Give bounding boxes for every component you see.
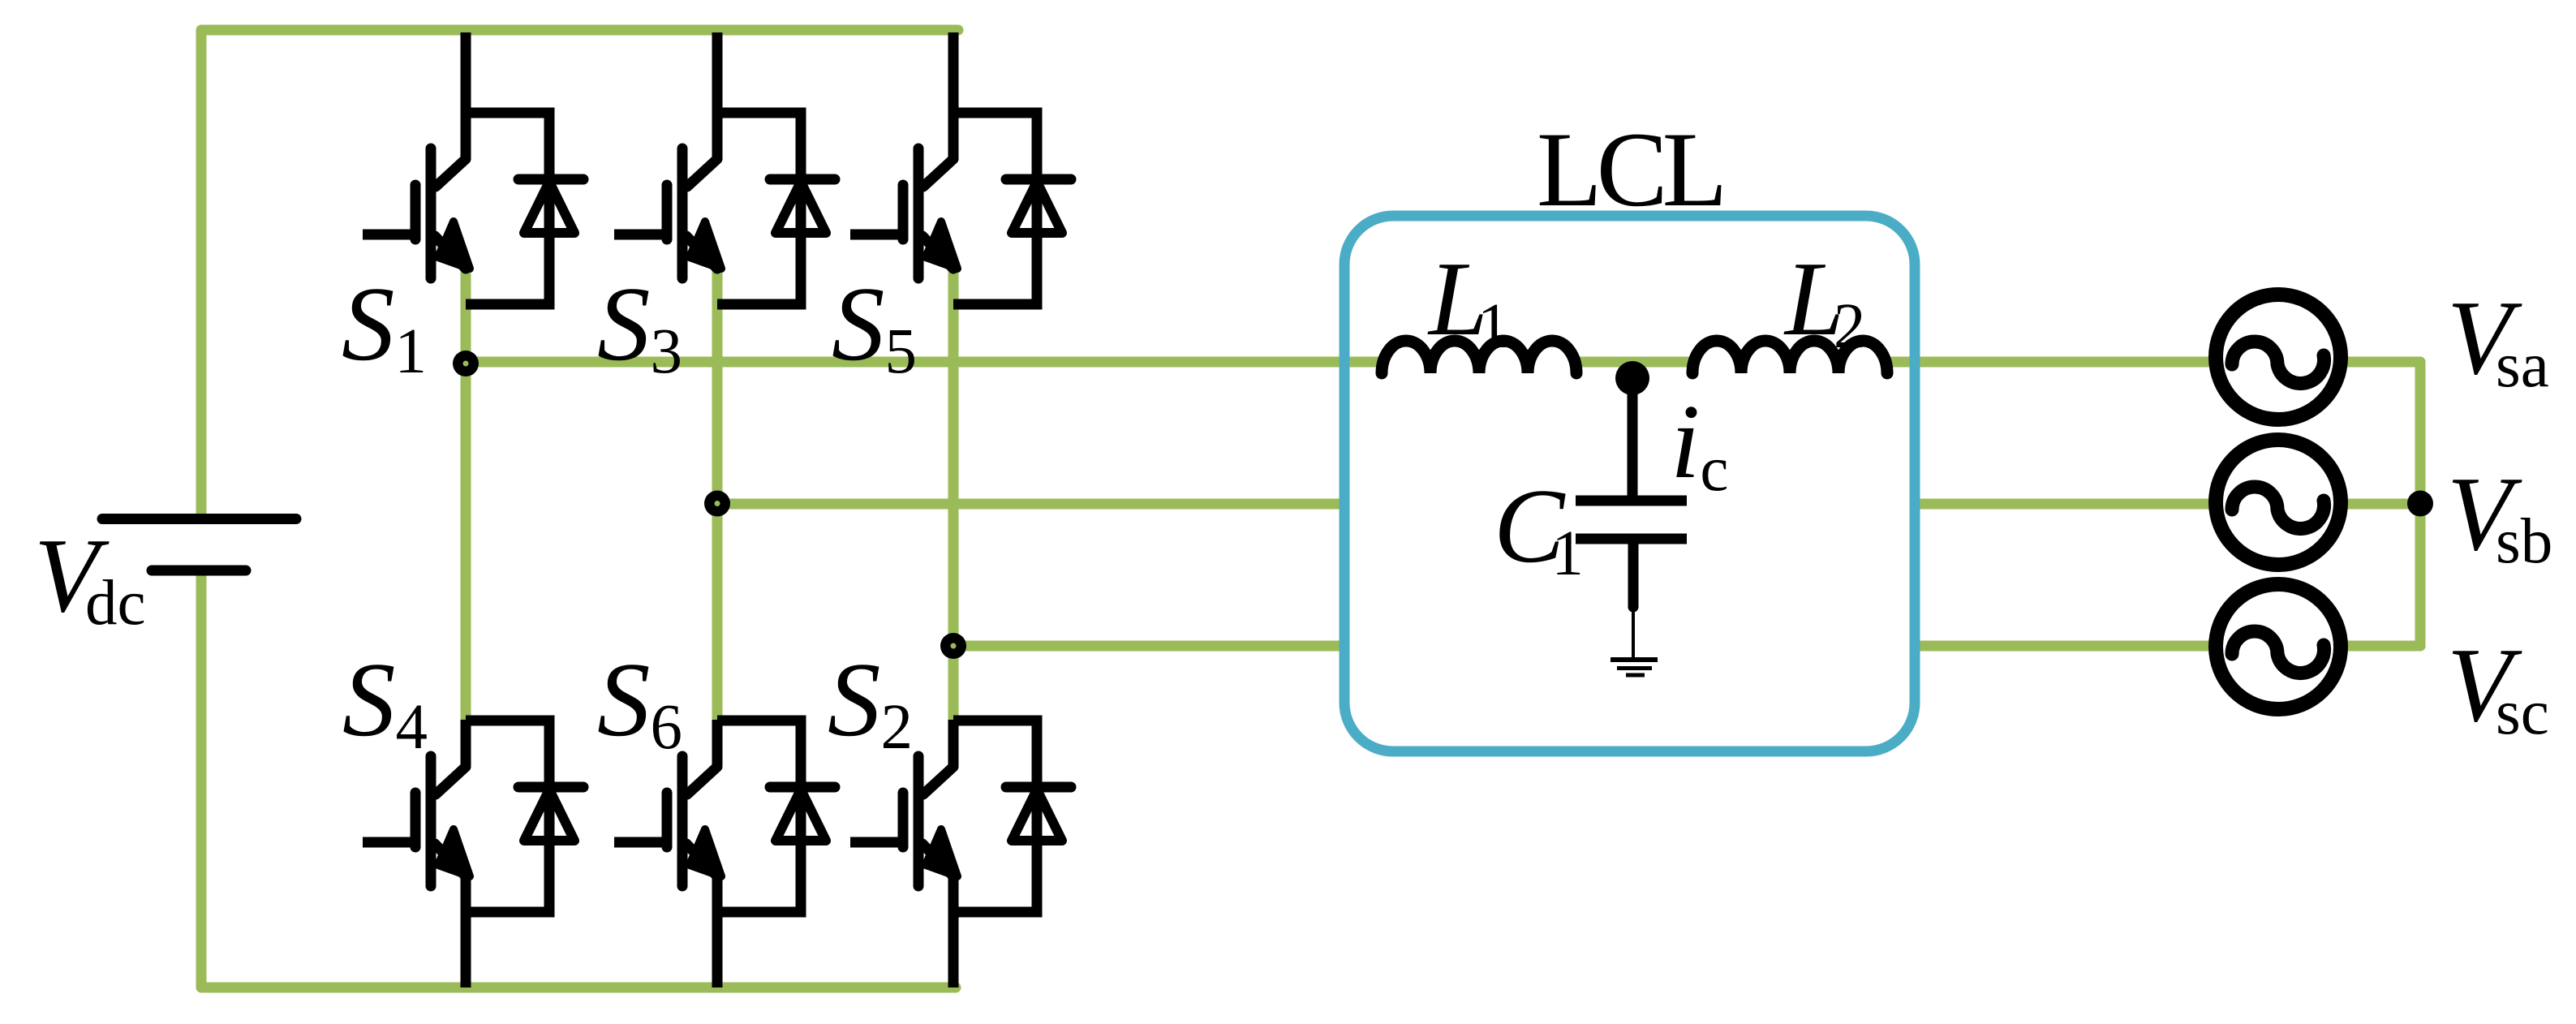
svg-text:S6: S6 bbox=[597, 641, 682, 763]
svg-text:Vsb: Vsb bbox=[2447, 455, 2552, 577]
svg-text:ic: ic bbox=[1671, 383, 1728, 505]
svg-text:C1: C1 bbox=[1494, 467, 1584, 589]
svg-text:S4: S4 bbox=[342, 641, 428, 763]
svg-text:S2: S2 bbox=[828, 641, 913, 763]
svg-text:L2: L2 bbox=[1783, 240, 1865, 362]
svg-text:Vsa: Vsa bbox=[2447, 279, 2549, 401]
svg-text:Vsc: Vsc bbox=[2447, 626, 2549, 748]
svg-text:S1: S1 bbox=[342, 265, 427, 387]
svg-text:LCL: LCL bbox=[1537, 110, 1722, 229]
svg-text:S5: S5 bbox=[832, 265, 917, 387]
svg-text:S3: S3 bbox=[597, 265, 682, 387]
svg-text:Vdc: Vdc bbox=[34, 517, 146, 639]
svg-text:L1: L1 bbox=[1427, 240, 1509, 362]
